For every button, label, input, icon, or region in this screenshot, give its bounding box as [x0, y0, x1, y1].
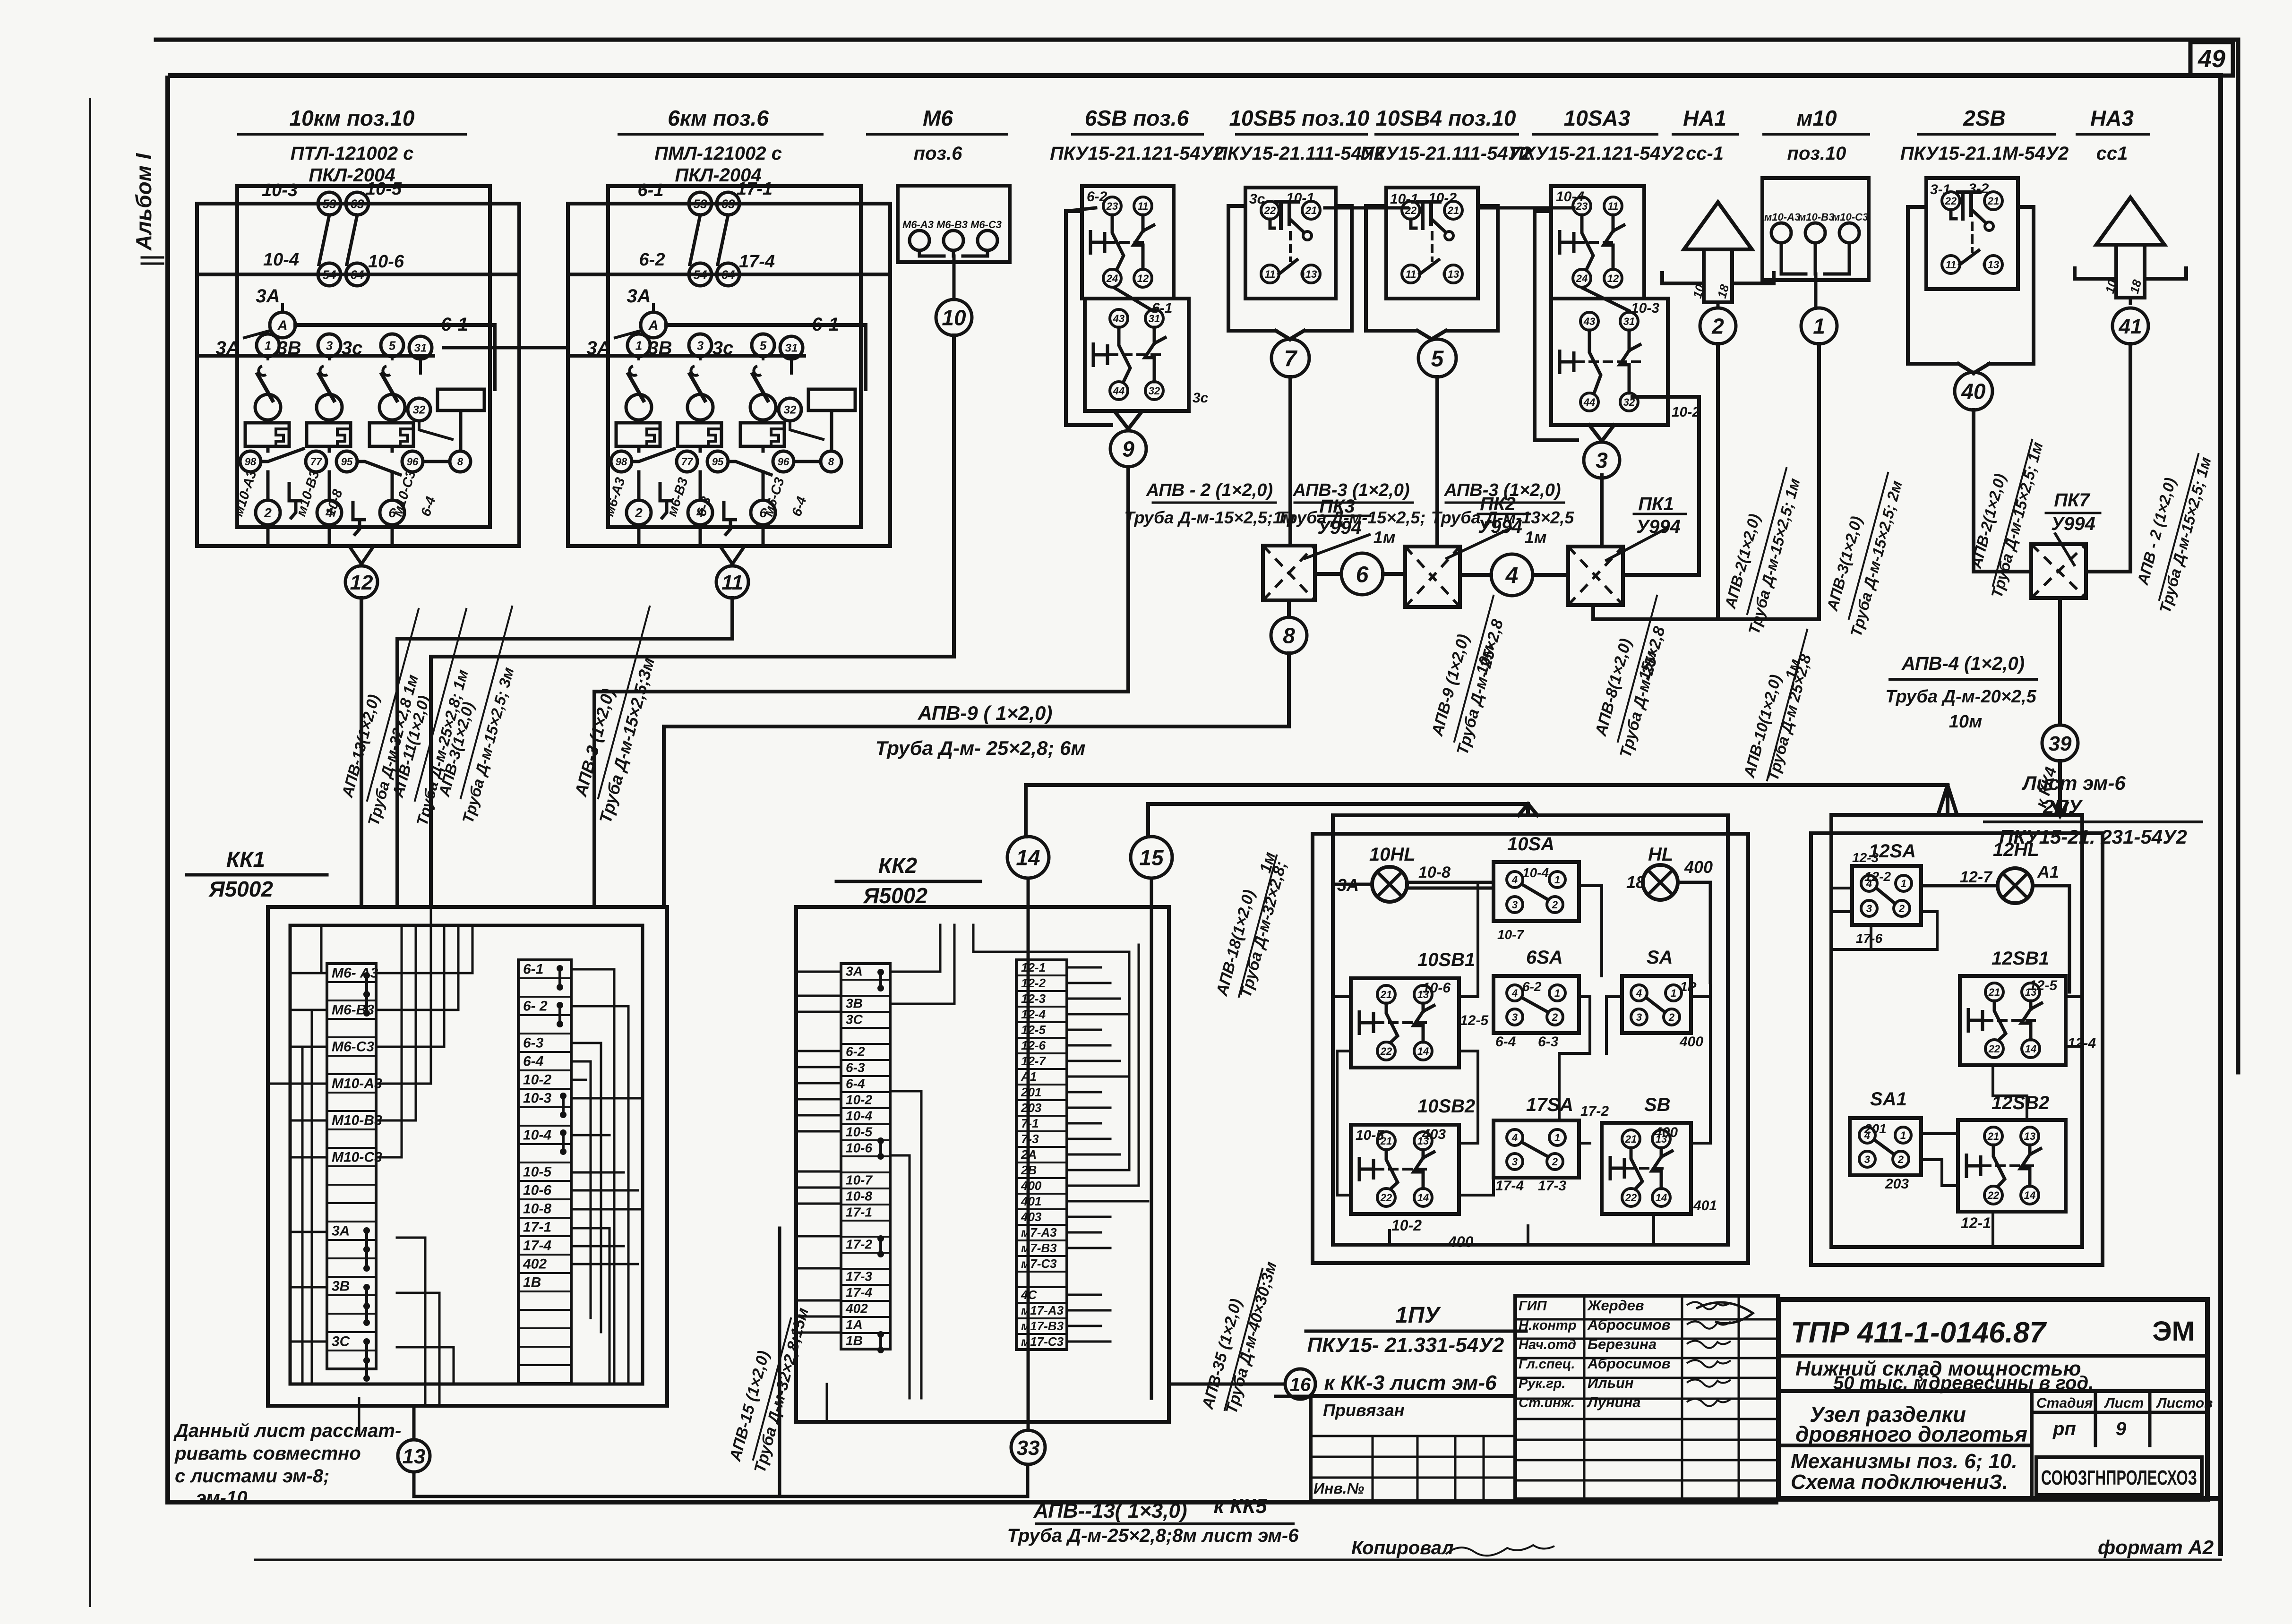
svg-text:6-3: 6-3: [523, 1035, 544, 1051]
terminal box KK2 outer box: [796, 907, 1169, 1422]
push button unit 10SA3-lower box: [1551, 299, 1668, 425]
pb 12SB2 terminal 13: [2021, 1127, 2039, 1145]
wire PK2 to circle 4: [1460, 573, 1491, 577]
cable circle 9: [1110, 431, 1146, 467]
svg-text:3-2: 3-2: [1968, 181, 1989, 197]
bus L2 to 1PU: [1148, 804, 1528, 815]
svg-text:12-5: 12-5: [1021, 1023, 1046, 1037]
svg-text:401: 401: [1021, 1194, 1041, 1208]
wire: cable 8 chain below PK3: [1287, 600, 1291, 617]
svg-text:31: 31: [1623, 316, 1635, 327]
svg-text:13: 13: [1305, 268, 1317, 280]
starter 10км КМ phase 3А hook contact: [258, 366, 266, 376]
pb 10SB1 terminal 14: [1414, 1042, 1432, 1060]
KK1 left terminal strip: [327, 964, 376, 1369]
svg-text:10м: 10м: [1949, 712, 1982, 732]
svg-text:3В: 3В: [332, 1278, 350, 1294]
svg-text:400: 400: [1679, 1034, 1703, 1050]
starter 6км КМ aux terminal 63: [717, 192, 739, 215]
svg-text:6-1: 6-1: [638, 180, 664, 200]
svg-text:17-1: 17-1: [846, 1205, 872, 1220]
svg-text:7-3: 7-3: [1021, 1132, 1039, 1146]
svg-text:АПВ--13( 1×3,0): АПВ--13( 1×3,0): [1033, 1499, 1187, 1522]
selector 12SA terminal 4: [1861, 875, 1877, 891]
selector SA1 terminal 4: [1859, 1127, 1875, 1143]
junction box PK3: [1263, 546, 1315, 600]
svg-text:14: 14: [2024, 1189, 2035, 1201]
selector SA terminal 4: [1631, 985, 1647, 1001]
rotated label fraction bars: [367, 609, 419, 801]
svg-text:18: 18: [1715, 282, 1732, 299]
wire: cable 9 down to KK1: [594, 468, 1128, 907]
starter 10км КМ phase bus: [197, 354, 433, 358]
KK2 right terminal strip: [1016, 960, 1067, 1350]
svg-text:6-3: 6-3: [846, 1060, 865, 1075]
selector 17SA terminal 2: [1547, 1154, 1563, 1170]
pb 10SB1 terminal 22: [1377, 1042, 1395, 1060]
svg-text:12: 12: [350, 571, 373, 594]
svg-text:к КК-3 лист эм-6: к КК-3 лист эм-6: [1324, 1371, 1497, 1394]
svg-text:6SА: 6SА: [1526, 947, 1563, 968]
svg-text:10-5: 10-5: [846, 1125, 872, 1139]
svg-text:3А: 3А: [627, 286, 651, 307]
magnetic starter block 6км КМ outer box: [568, 204, 890, 546]
svg-text:1В: 1В: [846, 1333, 863, 1348]
pb 6SB-lower terminal 43: [1110, 309, 1128, 327]
svg-text:15: 15: [1139, 846, 1164, 870]
svg-text:77: 77: [310, 456, 323, 468]
signatures scribbles: [1687, 1302, 1731, 1309]
PK3 label leader: [1305, 535, 1369, 558]
svg-text:Лист эм-6: Лист эм-6: [2021, 772, 2126, 794]
pb 12SB1 terminal 22: [1985, 1040, 2003, 1058]
svg-text:402: 402: [845, 1301, 868, 1316]
svg-text:12-5: 12-5: [1460, 1013, 1489, 1028]
2SB funnel: [1958, 364, 1974, 373]
svg-text:6-1: 6-1: [1152, 300, 1172, 316]
svg-text:10-6: 10-6: [368, 252, 404, 272]
pb 10SB2 terminal 14: [1414, 1188, 1432, 1206]
push button unit 10SB1 box: [1351, 978, 1459, 1068]
svg-text:КК2: КК2: [878, 853, 918, 878]
svg-text:Н.контр: Н.контр: [1519, 1318, 1576, 1333]
svg-text:21: 21: [1987, 195, 1999, 207]
svg-text:Гл.спец.: Гл.спец.: [1519, 1357, 1575, 1372]
svg-text:3А: 3А: [215, 338, 240, 359]
svg-text:402: 402: [523, 1256, 547, 1272]
svg-text:М6-В3: М6-В3: [936, 219, 968, 231]
pb SB NO contact: [1660, 1148, 1663, 1157]
push button station 2SB: [1908, 207, 1958, 364]
svg-text:10-3: 10-3: [1631, 300, 1659, 316]
svg-text:с листами эм-8;: с листами эм-8;: [175, 1466, 329, 1487]
svg-text:1: 1: [1554, 874, 1560, 886]
pb SB NC contact blade: [1631, 1148, 1642, 1188]
svg-text:201: 201: [1864, 1121, 1887, 1136]
svg-text:3с: 3с: [342, 338, 363, 359]
pb SB mushroom actuator: [1610, 1156, 1624, 1180]
starter 6км КМ aux terminal 54: [689, 263, 712, 286]
title row node: [1778, 1444, 2032, 1447]
pb 6SB-upper terminal 23: [1103, 197, 1121, 215]
pb 10SB5 head symbol: [1274, 202, 1300, 230]
wire 10SB5 to 10SB4: [1325, 206, 1408, 210]
pb 10SB5 bottom contact blade: [1279, 260, 1297, 274]
PK2 label leader: [1447, 528, 1511, 558]
svg-text:10-8: 10-8: [523, 1201, 551, 1216]
svg-text:201: 201: [1021, 1085, 1041, 1099]
svg-text:поз.6: поз.6: [914, 143, 962, 164]
starter 10км КМ control feed wire: [281, 305, 284, 312]
svg-text:6-4: 6-4: [846, 1077, 865, 1091]
starter 6км КМ phase 3В switch blade: [690, 374, 705, 401]
svg-text:сс1: сс1: [2096, 143, 2128, 164]
svg-text:1м: 1м: [1525, 528, 1547, 547]
pb SB terminal 13: [1652, 1130, 1670, 1148]
svg-text:21: 21: [1987, 1130, 1999, 1142]
svg-text:17-1: 17-1: [737, 179, 773, 199]
svg-text:53: 53: [694, 197, 707, 211]
svg-text:2: 2: [1552, 899, 1558, 911]
svg-text:10: 10: [942, 306, 966, 330]
svg-text:53: 53: [323, 197, 336, 211]
svg-text:12-3: 12-3: [1021, 991, 1046, 1006]
wire into 6SB terminal 23: [1066, 208, 1096, 211]
svg-text:формат А2: формат А2: [2098, 1536, 2214, 1558]
svg-text:22: 22: [1264, 205, 1276, 216]
starter 6км КМ phase 3А thermal element: [616, 423, 660, 446]
pb 2SB wires to head: [1951, 210, 1956, 219]
svg-text:6-4: 6-4: [1495, 1034, 1516, 1050]
svg-text:13: 13: [1988, 259, 1999, 271]
starter 10км КМ aux terminal 53: [318, 192, 341, 215]
pb 10SA3-upper NC contact blade: [1582, 215, 1593, 269]
pb 10SB5 terminal 21: [1302, 201, 1320, 219]
svg-text:3: 3: [697, 338, 704, 352]
wire: cable 11 down to KK1: [397, 598, 732, 907]
cable circle 3: [1584, 442, 1620, 478]
pb 10SB2 NO contact: [1422, 1150, 1425, 1158]
pb 2SB terminal 21: [1984, 192, 2002, 210]
pb 10SB5 terminal 11: [1261, 265, 1279, 283]
motor м10 terminal м10-А3: [1771, 223, 1791, 243]
cable circle 16: [1285, 1369, 1315, 1399]
svg-text:10-8: 10-8: [1418, 863, 1451, 881]
pb 6SB-upper terminal 12: [1134, 269, 1152, 287]
starter 6км КМ terminal 32: [779, 398, 801, 421]
svg-text:Копировал: Копировал: [1351, 1538, 1454, 1558]
PK1 label leader: [1606, 528, 1667, 560]
svg-text:3В: 3В: [277, 338, 301, 359]
pb 10SB1 actuator dashed link: [1375, 1021, 1431, 1024]
svg-text:54: 54: [323, 267, 336, 282]
svg-text:Труба Д-м-15×2,5;1м: Труба Д-м-15×2,5;1м: [1124, 508, 1295, 527]
svg-text:6-2: 6-2: [639, 250, 665, 270]
pb 10SA3-lower NO contact: [1628, 330, 1631, 350]
svg-text:400: 400: [1654, 1125, 1678, 1140]
svg-text:4: 4: [1511, 874, 1518, 886]
svg-text:16: 16: [1290, 1374, 1311, 1395]
svg-text:18: 18: [2127, 278, 2145, 295]
pb 10SA3-upper terminal 23: [1573, 197, 1591, 215]
svg-text:5: 5: [1431, 346, 1444, 371]
siren HA1: [1684, 202, 1752, 249]
svg-text:Труба Д-м-15×2,5; 1м: Труба Д-м-15×2,5; 1м: [1745, 476, 1803, 636]
starter 6км КМ coil terminal 8: [821, 451, 841, 472]
wire cable 40 down to PK7: [1974, 410, 2031, 572]
svg-text:14: 14: [2025, 1043, 2036, 1055]
svg-text:10-2: 10-2: [523, 1072, 551, 1087]
svg-text:Абросимов: Абросимов: [1587, 1316, 1670, 1333]
motor box М6: [898, 186, 1010, 262]
svg-text:3А: 3А: [332, 1223, 350, 1239]
starter 6км КМ phase 3А fuse circle: [626, 394, 652, 420]
svg-text:1: 1: [1554, 1132, 1560, 1144]
svg-text:10HL: 10HL: [1369, 844, 1416, 865]
svg-text:11: 11: [1406, 268, 1416, 280]
svg-text:10SА: 10SА: [1507, 834, 1554, 855]
svg-text:12-3: 12-3: [1852, 850, 1879, 865]
KK1 right terminal strip: [518, 960, 571, 1384]
starter 10км КМ aux terminal 64: [346, 263, 369, 286]
svg-text:1В: 1В: [523, 1274, 541, 1290]
pb 10SB1 NC contact blade: [1386, 1003, 1398, 1042]
10SB5 funnel: [1276, 331, 1290, 339]
pb 10SA3-lower terminal 31: [1620, 312, 1638, 330]
starter 6км КМ outgoing terminal 1: [688, 500, 712, 525]
starter 6км КМ aux terminal 53: [689, 192, 712, 215]
svg-text:ТПР 411-1-0146.87: ТПР 411-1-0146.87: [1791, 1316, 2047, 1349]
pb 6SB-lower terminal 32: [1145, 382, 1163, 400]
svg-text:21: 21: [1380, 989, 1392, 1000]
svg-text:10-7: 10-7: [1497, 927, 1524, 942]
svg-text:10SВ1: 10SВ1: [1417, 949, 1475, 970]
selector switch 12SA box: [1852, 866, 1921, 925]
svg-text:17-4: 17-4: [739, 252, 775, 272]
selector 6SA terminal 3: [1507, 1009, 1523, 1025]
svg-text:1: 1: [1900, 1129, 1906, 1141]
svg-text:Труба Д-м-13×2,5: Труба Д-м-13×2,5: [1431, 508, 1575, 527]
starter 10км КМ phase 3А switch blade: [258, 374, 273, 401]
pb 10SB2 terminal 22: [1377, 1188, 1395, 1206]
svg-text:м7-А3: м7-А3: [1021, 1225, 1057, 1239]
svg-text:403: 403: [1422, 1127, 1446, 1142]
KK2 jumpers: [879, 972, 882, 988]
pb 10SB4 terminal 22: [1402, 201, 1420, 219]
svg-text:7: 7: [1284, 346, 1298, 371]
svg-text:сс-1: сс-1: [1686, 143, 1724, 164]
pb 10SA3-upper mushroom actuator: [1560, 230, 1574, 255]
svg-text:эм-10.: эм-10.: [196, 1487, 253, 1508]
starter 10км КМ overload contact terminal 77: [306, 451, 326, 472]
sheet outer right border line: [2236, 40, 2240, 1072]
wire cable 8 to KK1: [664, 653, 1289, 907]
pb 10SB4 bottom contact blade: [1420, 260, 1439, 274]
svg-text:м10: м10: [1796, 106, 1837, 130]
svg-text:10-6: 10-6: [1422, 980, 1451, 996]
svg-text:м6-А3: м6-А3: [601, 476, 628, 518]
push button unit 10SA3-upper box: [1551, 186, 1644, 299]
svg-text:98: 98: [616, 456, 627, 468]
pb 6SB-upper NO contact: [1142, 215, 1145, 231]
svg-text:64: 64: [721, 267, 735, 282]
svg-text:10-2: 10-2: [1428, 190, 1457, 206]
pb 10SA3-upper terminal 11: [1604, 197, 1622, 215]
starter 10км КМ phase 3А fuse circle: [255, 394, 281, 420]
svg-text:10-6: 10-6: [523, 1182, 551, 1198]
motor м10 terminal м10-С3: [1839, 223, 1859, 243]
svg-text:А1: А1: [2037, 862, 2059, 881]
svg-text:12: 12: [1607, 273, 1619, 284]
svg-text:м7-В3: м7-В3: [1021, 1241, 1057, 1255]
svg-text:3с: 3с: [712, 338, 734, 359]
svg-text:98: 98: [245, 456, 257, 468]
svg-text:14: 14: [1417, 1192, 1429, 1204]
svg-text:14: 14: [1417, 1045, 1429, 1057]
svg-text:к КК5: к КК5: [1213, 1495, 1267, 1518]
KK2 left terminal strip: [841, 964, 890, 1349]
svg-text:10-2: 10-2: [1672, 404, 1700, 420]
svg-text:1: 1: [1901, 878, 1906, 889]
pb 12SB1 terminal 13: [2022, 983, 2040, 1001]
wire PK3 to circle 6: [1315, 572, 1341, 576]
svg-text:3с: 3с: [1249, 191, 1265, 207]
svg-text:Ст.инж.: Ст.инж.: [1519, 1395, 1575, 1410]
svg-text:400: 400: [1684, 857, 1713, 877]
pb 6SB-lower actuator dashed link: [1109, 353, 1160, 356]
push button unit 10SB5 box: [1245, 188, 1336, 299]
svg-text:400: 400: [1448, 1233, 1474, 1250]
junction box PK1: [1568, 547, 1623, 605]
svg-text:Данный лист рассмат-: Данный лист рассмат-: [173, 1420, 401, 1441]
wire KK2 to circle 16: [1169, 1383, 1285, 1386]
push button unit 12SB1 box: [1960, 976, 2066, 1065]
selector SA terminal 3: [1631, 1009, 1647, 1025]
svg-text:Рук.гр.: Рук.гр.: [1519, 1376, 1565, 1391]
svg-text:ПМЛ-121002 с: ПМЛ-121002 с: [654, 143, 782, 164]
starter 10км КМ phase 3с switch blade: [382, 374, 397, 401]
pb 10SA3-lower mushroom actuator: [1560, 350, 1574, 374]
svg-text:М10-В3: М10-В3: [332, 1112, 382, 1128]
starter 10км КМ phase 3с fuse circle: [379, 394, 405, 420]
svg-text:9: 9: [1122, 437, 1134, 462]
svg-text:Березина: Березина: [1588, 1336, 1657, 1352]
svg-text:12SВ1: 12SВ1: [1992, 948, 2049, 969]
starter 10км КМ phase 3с thermal element: [369, 423, 413, 446]
svg-text:96: 96: [407, 456, 419, 468]
pb 10SA3-lower terminal 44: [1580, 393, 1598, 411]
selector SA terminal 1: [1665, 985, 1682, 1001]
pb 10SB4 terminal 21: [1444, 201, 1462, 219]
pb 2SB terminal 11: [1942, 256, 1960, 274]
svg-text:3: 3: [1512, 899, 1518, 911]
pb SB actuator dashed link: [1626, 1167, 1663, 1170]
svg-text:М10-С3: М10-С3: [332, 1149, 382, 1165]
starter 6км КМ overload contact terminal 95: [707, 451, 728, 472]
svg-text:12-2: 12-2: [1021, 976, 1046, 990]
starter 10км КМ outgoing terminal 2: [380, 500, 404, 525]
svg-text:6-1: 6-1: [812, 314, 839, 335]
selector 17SA bridge: [1522, 1142, 1548, 1157]
starter 10км КМ aux terminal 63: [346, 192, 369, 215]
svg-text:1А: 1А: [846, 1317, 863, 1332]
wire cable 15 through KK2: [1150, 878, 1153, 1398]
svg-text:SА1: SА1: [1870, 1089, 1907, 1110]
lamp 12HL: [1998, 868, 2033, 903]
svg-text:401: 401: [1693, 1198, 1717, 1214]
svg-text:м10-А3: м10-А3: [1764, 211, 1800, 223]
control panel 2PU outer box: [1811, 833, 2103, 1265]
svg-text:HL: HL: [1648, 844, 1673, 865]
svg-text:10-4: 10-4: [263, 250, 299, 270]
starter 10км КМ aux contact blades: [319, 215, 329, 265]
svg-text:1: 1: [1671, 987, 1676, 999]
svg-text:12-1: 12-1: [1961, 1214, 1991, 1231]
starter 10км КМ phase terminal 1: [257, 334, 279, 357]
svg-text:10-6: 10-6: [846, 1141, 872, 1155]
svg-text:м10-В3: м10-В3: [1798, 211, 1834, 223]
starter 10км КМ phase 3В fuse circle: [317, 394, 342, 420]
starter 10км КМ phase terminal 5: [381, 334, 403, 357]
cable circle 12: [345, 566, 378, 598]
pb 6SB-lower NO contact: [1153, 327, 1156, 343]
svg-text:14: 14: [1656, 1192, 1667, 1204]
svg-text:1Р: 1Р: [1680, 979, 1697, 994]
pb 6SB-lower terminal 44: [1110, 382, 1128, 400]
svg-text:АПВ-3 (1×2,0): АПВ-3 (1×2,0): [1443, 480, 1561, 500]
pb SB terminal 14: [1652, 1188, 1670, 1206]
starter 6км КМ overload contact terminal 77: [677, 451, 697, 472]
selector SA1 bridge: [1874, 1140, 1894, 1154]
selector 12SA terminal 1: [1896, 875, 1912, 891]
svg-text:43: 43: [1583, 316, 1595, 327]
svg-text:22: 22: [1625, 1192, 1637, 1204]
svg-text:13: 13: [1448, 268, 1459, 280]
starter 6км КМ phase 3В thermal element: [678, 423, 721, 446]
svg-text:2: 2: [1898, 903, 1905, 915]
svg-text:10SВ5 поз.10: 10SВ5 поз.10: [1229, 106, 1369, 130]
svg-text:рп: рп: [2052, 1419, 2076, 1439]
svg-text:Лунина: Лунина: [1587, 1394, 1641, 1410]
cable circle 13: [398, 1440, 430, 1472]
left extension table: [1311, 1396, 1515, 1501]
svg-text:11: 11: [1265, 268, 1276, 280]
svg-text:17-4: 17-4: [1495, 1178, 1524, 1194]
svg-text:41: 41: [2119, 315, 2142, 338]
svg-text:3: 3: [1866, 903, 1872, 915]
2PU top funnel: [1938, 785, 1948, 815]
lamp 10HL: [1372, 867, 1407, 902]
wire PK1 bottom to motor lines: [1593, 605, 1819, 619]
svg-text:М6-С3: М6-С3: [332, 1039, 374, 1054]
cable circle 11: [716, 566, 748, 598]
push button unit 2SB box: [1926, 178, 2018, 289]
pb 12SB2 NO contact: [2028, 1145, 2032, 1154]
selector 6SA terminal 2: [1547, 1009, 1563, 1025]
push button unit 6SB-lower box: [1085, 299, 1189, 411]
svg-text:1: 1: [265, 338, 271, 352]
svg-text:17SА: 17SА: [1526, 1094, 1573, 1115]
svg-text:м10-С3: м10-С3: [1832, 211, 1868, 223]
svg-text:24: 24: [1106, 273, 1118, 284]
push button unit 12SB2 box: [1958, 1120, 2066, 1212]
starter 10км КМ overload contact terminal 95: [336, 451, 357, 472]
HL wires: [1678, 882, 1710, 983]
svg-text:64: 64: [351, 267, 364, 282]
starter 6км КМ phase 3А hook contact: [629, 366, 637, 376]
svg-text:Труба Д-м-20×2,5: Труба Д-м-20×2,5: [1885, 687, 2036, 707]
svg-text:3: 3: [1864, 1154, 1870, 1165]
